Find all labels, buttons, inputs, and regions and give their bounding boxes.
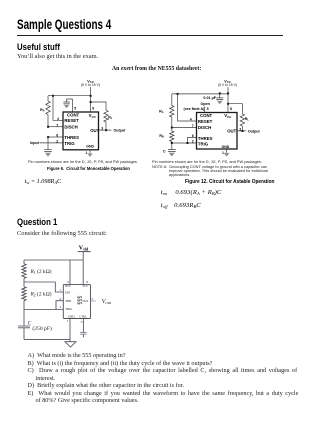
junction DISCH node fig12: [171, 127, 173, 129]
capacitor C fig12: [168, 150, 176, 152]
caption fig9 pin note: [28, 160, 138, 164]
svg-text:CTRL: CTRL: [79, 314, 87, 318]
junction THRES node fig9: [47, 136, 49, 138]
svg-text:(5 V to 15 V): (5 V to 15 V): [218, 83, 237, 87]
wire TRIG q1: [24, 309, 63, 311]
svg-text:RA: RA: [159, 110, 164, 115]
svg-text:RESET: RESET: [198, 119, 213, 124]
junction OUT node fig9: [105, 129, 107, 131]
svg-text:Open: Open: [201, 102, 211, 106]
chip U2 box fig12: [197, 113, 238, 150]
svg-text:Vout: Vout: [102, 298, 112, 305]
wire RESET to rail fig12: [178, 94, 197, 121]
svg-text:5: 5: [74, 107, 76, 111]
svg-text:TRIG: TRIG: [65, 307, 73, 311]
wire DISCH fig12: [172, 127, 197, 129]
svg-text:2: 2: [56, 139, 58, 143]
svg-text:TRIG: TRIG: [64, 141, 75, 146]
wire below R2 q1: [23, 301, 25, 310]
svg-text:RESET: RESET: [64, 118, 79, 123]
svg-text:Input: Input: [30, 141, 40, 145]
wire THRES bridge fig12: [188, 137, 197, 143]
wire THRES fig9: [48, 136, 63, 138]
svg-text:8: 8: [230, 107, 232, 111]
resistor RB fig12: [171, 128, 173, 132]
capacitor CTRL q1: [82, 319, 84, 333]
svg-text:R2 (2 kΩ): R2 (2 kΩ): [30, 291, 52, 298]
capacitor 0.01uF fig12: [219, 94, 221, 98]
caption fig12 pin note: [152, 160, 262, 164]
svg-text:0.01 µF: 0.01 µF: [203, 96, 216, 100]
resistor R2 q1: [22, 287, 26, 301]
svg-text:C: C: [28, 321, 32, 327]
ground under 0.01uF cap fig12: [217, 101, 223, 105]
wire cap to bottom q1: [23, 328, 25, 339]
wire rail to cap q1: [23, 310, 25, 326]
svg-text:DIS: DIS: [65, 291, 70, 295]
svg-text:555: 555: [75, 296, 81, 305]
pin numbers fig12: [190, 107, 242, 155]
note A: [152, 165, 268, 178]
svg-text:2: 2: [60, 305, 62, 309]
caption fig9: [47, 167, 130, 172]
equation ton: [161, 189, 222, 196]
caption fig12: [185, 179, 274, 185]
svg-text:Output: Output: [114, 129, 127, 133]
wire Input to TRIG fig9: [40, 142, 64, 144]
wire DISCH fig9: [48, 126, 63, 128]
ground fig12 bottom: [224, 153, 230, 157]
ground q1: [65, 342, 76, 347]
wire left rail upper q1: [23, 260, 25, 264]
svg-text:GND: GND: [86, 145, 94, 149]
svg-text:RL: RL: [108, 115, 113, 120]
body line: [17, 230, 107, 237]
wire OUT stub q1: [91, 300, 96, 302]
svg-text:OUT: OUT: [82, 299, 88, 303]
svg-text:THR: THR: [65, 299, 71, 303]
svg-text:6: 6: [192, 134, 194, 138]
svg-text:VCC: VCC: [89, 113, 97, 119]
junction TRIG node fig12: [171, 142, 173, 144]
svg-text:RL: RL: [245, 117, 250, 122]
svg-text:VCC: VCC: [224, 113, 232, 119]
equation toff: [161, 202, 201, 209]
wire OUT fig12: [237, 130, 246, 132]
wire THR bridge q1: [56, 301, 63, 310]
ground under CT fig9: [45, 153, 51, 157]
wire between R1 R2 q1: [23, 278, 25, 287]
svg-text:1: 1: [67, 319, 69, 323]
pin numbers fig9: [56, 107, 103, 155]
svg-text:THRES: THRES: [198, 136, 213, 141]
svg-text:Vdd: Vdd: [79, 244, 89, 251]
wire VCC supply line fig12: [227, 87, 229, 113]
capacitor CT fig9: [44, 150, 52, 152]
junction dots fig9 top: [52, 95, 92, 103]
svg-text:RB: RB: [159, 134, 164, 139]
wire pin1 drop q1: [69, 319, 71, 342]
svg-text:(5 V to 15 V): (5 V to 15 V): [81, 83, 100, 87]
questions list: [28, 352, 299, 404]
heading Question 1: [17, 217, 57, 227]
svg-text:RST: RST: [65, 284, 71, 288]
svg-text:7: 7: [192, 124, 194, 128]
resistor RA fig12: [171, 94, 173, 106]
svg-text:7: 7: [56, 123, 58, 127]
wire Vdd down to pin8 q1: [82, 252, 84, 285]
chip U2 pin labels fig12: [198, 113, 237, 149]
title rule: [17, 35, 283, 36]
svg-text:4: 4: [57, 117, 59, 121]
wire pin4 drop q1: [69, 260, 71, 284]
ground under CONT cap fig9: [64, 105, 70, 109]
junction OUT node fig12: [242, 130, 244, 132]
ground fig9 bottom: [87, 153, 93, 157]
node VCC label fig12: [218, 78, 237, 87]
svg-text:DISCH: DISCH: [64, 124, 77, 129]
resistor RA fig9: [47, 96, 49, 101]
svg-text:6: 6: [56, 133, 58, 137]
resistor R1 q1: [22, 264, 26, 279]
capacitor CONT bypass fig9: [67, 99, 73, 112]
svg-text:Output: Output: [248, 129, 261, 133]
svg-text:OUT: OUT: [90, 128, 99, 133]
capacitor C q1: [18, 326, 30, 328]
svg-text:RA: RA: [40, 108, 45, 113]
equation tw: [25, 178, 61, 185]
ground under C fig12: [169, 153, 175, 157]
svg-text:4: 4: [190, 117, 192, 121]
wire GND stub fig9: [89, 150, 91, 154]
wire TRIG fig12: [172, 142, 197, 144]
chip U1 box fig9: [63, 112, 99, 150]
svg-text:(250 pF): (250 pF): [32, 325, 52, 332]
wire down to CT fig9: [47, 137, 49, 149]
heading Useful stuff: [17, 42, 60, 52]
chip U1 pin labels fig9: [64, 113, 99, 149]
junction dots fig12 top: [177, 92, 230, 104]
wire CONT open stub fig12: [204, 107, 206, 113]
supply bar Vdd q1: [78, 251, 91, 253]
wire bottom rail q1: [24, 338, 70, 340]
wire top rail fig9: [48, 95, 91, 97]
chip q1 pin labels: [65, 284, 88, 318]
wire top rail q1: [24, 259, 83, 261]
svg-text:5: 5: [207, 107, 209, 111]
centered bold line: [112, 66, 201, 72]
svg-text:C: C: [163, 150, 166, 154]
svg-text:CONT: CONT: [200, 113, 213, 118]
svg-text:OUT: OUT: [227, 128, 236, 133]
svg-text:TRIG: TRIG: [198, 142, 209, 147]
svg-text:1: 1: [222, 151, 224, 155]
wire DIS tap q1: [24, 282, 63, 292]
node VCC label fig9: [81, 78, 100, 87]
wire VCC supply line fig9: [90, 87, 92, 112]
wire GND stub fig12: [226, 149, 228, 153]
svg-text:1: 1: [85, 151, 87, 155]
resistor RL fig12: [228, 104, 242, 114]
svg-text:2: 2: [192, 139, 194, 143]
resistor RL fig9: [91, 102, 107, 110]
svg-text:GND: GND: [68, 314, 75, 318]
svg-text:DISCH: DISCH: [198, 125, 211, 130]
junction DISCH node fig9: [47, 126, 49, 128]
title: [17, 17, 111, 32]
body line: [17, 53, 98, 60]
svg-text:GND: GND: [222, 145, 230, 149]
svg-text:VCC: VCC: [82, 284, 88, 288]
wire RESET to rail fig9: [53, 96, 63, 121]
svg-text:CONT: CONT: [67, 113, 80, 118]
wire top rail fig12: [172, 93, 228, 95]
svg-text:THRES: THRES: [64, 135, 79, 140]
svg-text:5: 5: [81, 320, 83, 324]
svg-text:R1 (2 kΩ): R1 (2 kΩ): [30, 268, 52, 275]
svg-text:6: 6: [60, 297, 62, 301]
chip 555 box q1: [63, 284, 90, 318]
svg-text:(see Note A): (see Note A): [184, 107, 206, 111]
svg-text:8: 8: [92, 107, 94, 111]
wire OUT fig9: [99, 129, 112, 131]
pin numbers q1: [60, 280, 94, 324]
junction THRES tap fig12: [187, 142, 189, 144]
